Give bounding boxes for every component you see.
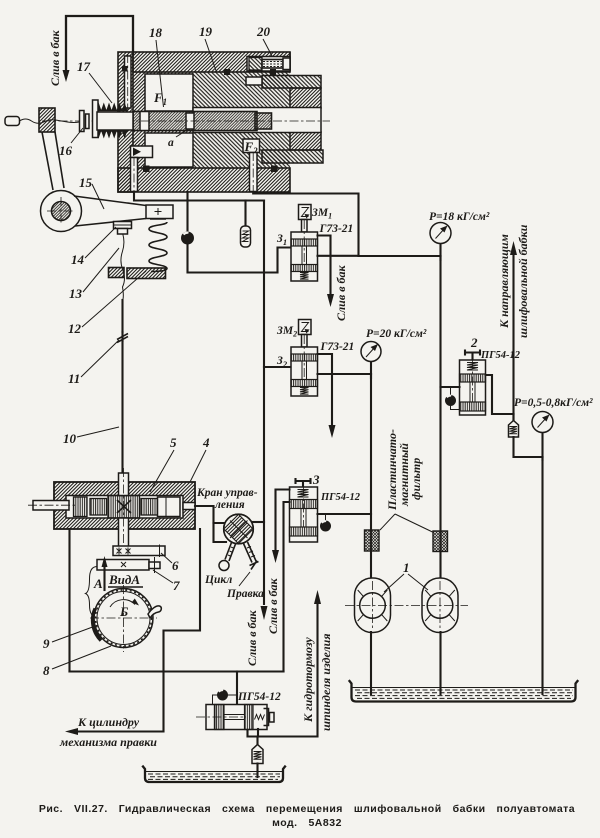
wire: З2 left port to trunk x264 [264,366,291,368]
svg-text:Правка: Правка [226,588,264,600]
svg-text:6: 6 [172,558,179,573]
coupling 11 [117,332,128,343]
svg-text:З1: З1 [276,233,287,247]
label 14 [71,227,116,267]
wire: line to hydraulic brake with up arrow [248,590,322,737]
svg-text:8: 8 [43,663,50,678]
svg-text:ПГ54-12: ПГ54-12 [320,492,361,503]
port channel (lower left, to rod side) [131,146,153,192]
label ВидА (underlined) [108,572,143,587]
label 19 [199,24,217,72]
label: К цилиндру механизма правки [59,715,157,749]
hydraulic cylinder: inner quill / spindle sleeve (right blocks) [193,72,323,168]
svg-text:19: 19 [199,24,213,39]
svg-text:Г73-21: Г73-21 [320,341,355,353]
spring 17 on rod end (two filled coil rows) [93,100,134,139]
label 20 [256,24,272,56]
label 10 [63,427,119,446]
svg-text:Слив в бак: Слив в бак [245,609,259,666]
svg-text:ления: ления [214,499,245,511]
wire: gauge line down to tank [541,457,543,694]
valve З1 (Г73-21) [291,205,318,282]
label: К гидротормозу шпинделя изделия (vertical, two lines) [301,633,333,731]
wire: valve bottom stubs to brake line [257,729,259,737]
spring 12 (coil) [149,219,167,272]
label 7 [153,570,180,593]
wire: valve 3 left bottom port down to manifold [284,502,290,672]
lever 15 with roller [41,132,174,232]
svg-text:механизма правки: механизма правки [59,735,157,749]
svg-text:ЗМ2: ЗМ2 [276,325,297,339]
hydraulic cylinder: outer housing hatched blocks [118,52,290,192]
bolt 14 [114,222,132,235]
wire: check-valve branch to З1 left port [188,192,291,273]
wire: drum circuit left side [68,529,70,672]
svg-text:а: а [168,137,174,149]
selector handle (Цикл / Правка) [224,514,254,544]
svg-text:К цилиндру: К цилиндру [77,715,140,729]
wire: pump 1 suction to tank [370,632,372,694]
svg-text:Слив в бак: Слив в бак [48,29,62,86]
wire: F2 pressure port line [253,192,440,256]
label: К направляющим шлифовальной бабки (vertical, two lines) [497,224,530,338]
svg-text:К направляющим: К направляющим [497,234,511,329]
svg-text:ВидА: ВидА [108,572,140,587]
svg-text:ПГ54-12: ПГ54-12 [480,350,521,361]
wire: rod from lever down to control valve [121,300,123,332]
wire: pressure trunk down to pump 2 (through filter) [439,256,441,578]
check valve ball (valve 2) [445,388,460,410]
svg-text:12: 12 [68,321,82,336]
control valve (Кран управления) housing [54,482,195,529]
svg-text:11: 11 [68,371,80,386]
svg-text:4: 4 [202,435,210,450]
svg-text:9: 9 [43,636,50,651]
valve 2 ПГ54-12 [460,351,486,416]
gauge P=0,5-0,8 [532,412,553,461]
filter 1 (plate-magnetic) [365,530,380,551]
label 8 [43,646,111,678]
wire: drum circuit right side [164,529,201,672]
bar 7 (follower bar) [97,557,160,573]
svg-text:Слив в бак: Слив в бак [266,577,280,634]
cylinder cavity F1 [145,74,193,111]
label: Пластинчато-магнитный фильтр (vertical, three lines) [380,429,433,532]
check valve ball (valve 3) [320,515,331,532]
svg-text:14: 14 [71,252,85,267]
wire: З1 right top port to drain arrow [318,236,335,308]
wire: branch to dressing-mechanism cylinder (left arrow) [65,672,164,736]
label Правка [226,572,264,600]
svg-text:мод. 5А832: мод. 5А832 [272,817,342,829]
wire: pump line branch to valve 2 left port [441,386,460,388]
handle rod Цикл with knob [219,543,236,571]
wire: rod continues to control valve stem [121,341,123,473]
svg-text:ПГ54-12: ПГ54-12 [237,691,281,703]
tank 1 (main reservoir) [350,681,578,702]
gauge P=20 [361,342,381,379]
bolt 20 at housing top [247,57,290,72]
pump 1 [355,578,391,633]
label 9 [43,625,98,651]
wire: bottom manifold y=671.5 [70,670,284,672]
wire: vertical trunk x264 (rod side / drain) [263,201,265,605]
control valve rod (left) [28,501,76,511]
control valve spool lands [74,496,181,519]
bottom valve ПГ54-12 (horizontal) [196,705,274,730]
pilot throttle capsule (on rod-side line) [241,201,251,248]
svg-text:Слив в бак: Слив в бак [334,264,348,321]
tank 2 (dressing reservoir) [143,767,285,783]
label 4 [190,435,210,482]
svg-text:Г73-21: Г73-21 [319,223,354,235]
svg-text:15: 15 [79,175,93,190]
label 13 [69,248,119,301]
drain channel in left wall [125,54,132,110]
svg-text:13: 13 [69,286,83,301]
bar 6 (cam bar) [113,545,165,558]
wire: valve 3 left top port to drain arrow [272,490,290,564]
wire: selector right to trunk x264 [253,521,264,523]
wire: valve 3 right port to pressure line [318,513,372,515]
svg-text:7: 7 [173,578,180,593]
wire 13 (thin rod from bolt) [121,234,125,300]
port channel F2 [243,139,260,192]
wire: valve 2 right port to guides line [486,375,514,414]
wire: P=20 line down to filter 1 / pump 1 [370,374,372,578]
label 12 [68,271,146,336]
svg-text:ЗМ1: ЗМ1 [311,207,332,221]
bracket (hatched anchor) [39,108,55,132]
label 1 (pumps) [384,560,428,592]
wire: manifold drop to low-pressure valve [236,672,238,705]
wire: З2 right top port to drain arrow [318,354,336,438]
svg-text:Р=20 кГ/см²: Р=20 кГ/см² [366,328,427,340]
svg-text:Б: Б [119,604,128,619]
svg-text:10: 10 [63,431,77,446]
junction dots (black squares) [143,166,150,173]
wire: З2 right bottom port to P=20 line [318,373,372,375]
cylinder lower cavity [145,133,193,167]
check valve ball (on branch) [182,232,194,244]
wire: line to grinding head guides with up arrow [510,241,517,421]
svg-text:Р=18 кГ/см²: Р=18 кГ/см² [429,211,490,223]
cylinder axis centerline [42,120,330,122]
label: Кран управления [196,487,258,511]
svg-text:3: 3 [312,472,320,487]
label 15 [79,175,104,209]
check valve ball (bottom valve) [213,690,238,705]
wire: З1 right bottom port to pressure trunk [318,255,359,257]
pumps axis centerline [345,605,468,607]
arrow: drain to tank (end of trunk x264) [261,606,268,620]
label 16 [59,128,83,158]
piston rod [133,112,272,131]
wire: rod-side port line (cylinder bottom left to vertical trunk) [134,192,264,201]
svg-text:2: 2 [470,335,478,350]
svg-text:К гидротормозу: К гидротормозу [301,637,315,723]
cylinder bore [193,108,321,133]
svg-text:5: 5 [170,435,177,450]
node a (gap label) [168,128,190,149]
svg-text:20: 20 [256,24,271,39]
label 18 [149,25,164,107]
svg-text:Р=0,5-0,8кГ/см²: Р=0,5-0,8кГ/см² [514,397,593,409]
drum 8/9 (dressing cam drum) [90,585,161,652]
flexible cable 16 [5,117,80,126]
wire: pump 2 suction to tank [439,632,441,694]
svg-text:шпинделя изделия: шпинделя изделия [319,633,333,731]
wire: drain line from cylinder to tank (top left) [63,16,134,82]
svg-text:Рис. VII.27. Гидравлическая: Рис. VII.27. Гидравлическая схема переме… [39,803,575,815]
label 6 [161,553,179,573]
svg-text:Цикл: Цикл [204,574,232,586]
rod end discs [80,111,90,132]
svg-text:шлифовальной бабки: шлифовальной бабки [516,224,530,338]
valve 3 ПГ54-12 [290,479,318,542]
valve З2 (Г73-21) [291,320,318,397]
label 11 [68,340,119,386]
svg-text:Кран управ-: Кран управ- [196,487,258,499]
label 17 [77,59,112,103]
filter 2 (plate-magnetic) [433,531,448,552]
svg-text:1: 1 [403,560,410,575]
spring throttle (backpressure, on guides line) [509,414,543,457]
control valve stem (through housing, to bars below) [119,468,129,556]
spring relief throttle (to tank 2) [252,737,263,778]
svg-text:16: 16 [59,143,73,158]
svg-text:А: А [93,576,103,591]
view arrow А [86,556,108,617]
label 5 [150,435,177,492]
wire: control valve right port to selector [183,503,226,543]
svg-text:17: 17 [77,59,91,74]
pump 2 [422,578,458,633]
spring base plates [109,268,166,279]
svg-text:фильтр: фильтр [409,458,423,500]
svg-text:18: 18 [149,25,163,40]
gauge P=18 [430,223,451,261]
handle rod Правка [244,542,259,570]
